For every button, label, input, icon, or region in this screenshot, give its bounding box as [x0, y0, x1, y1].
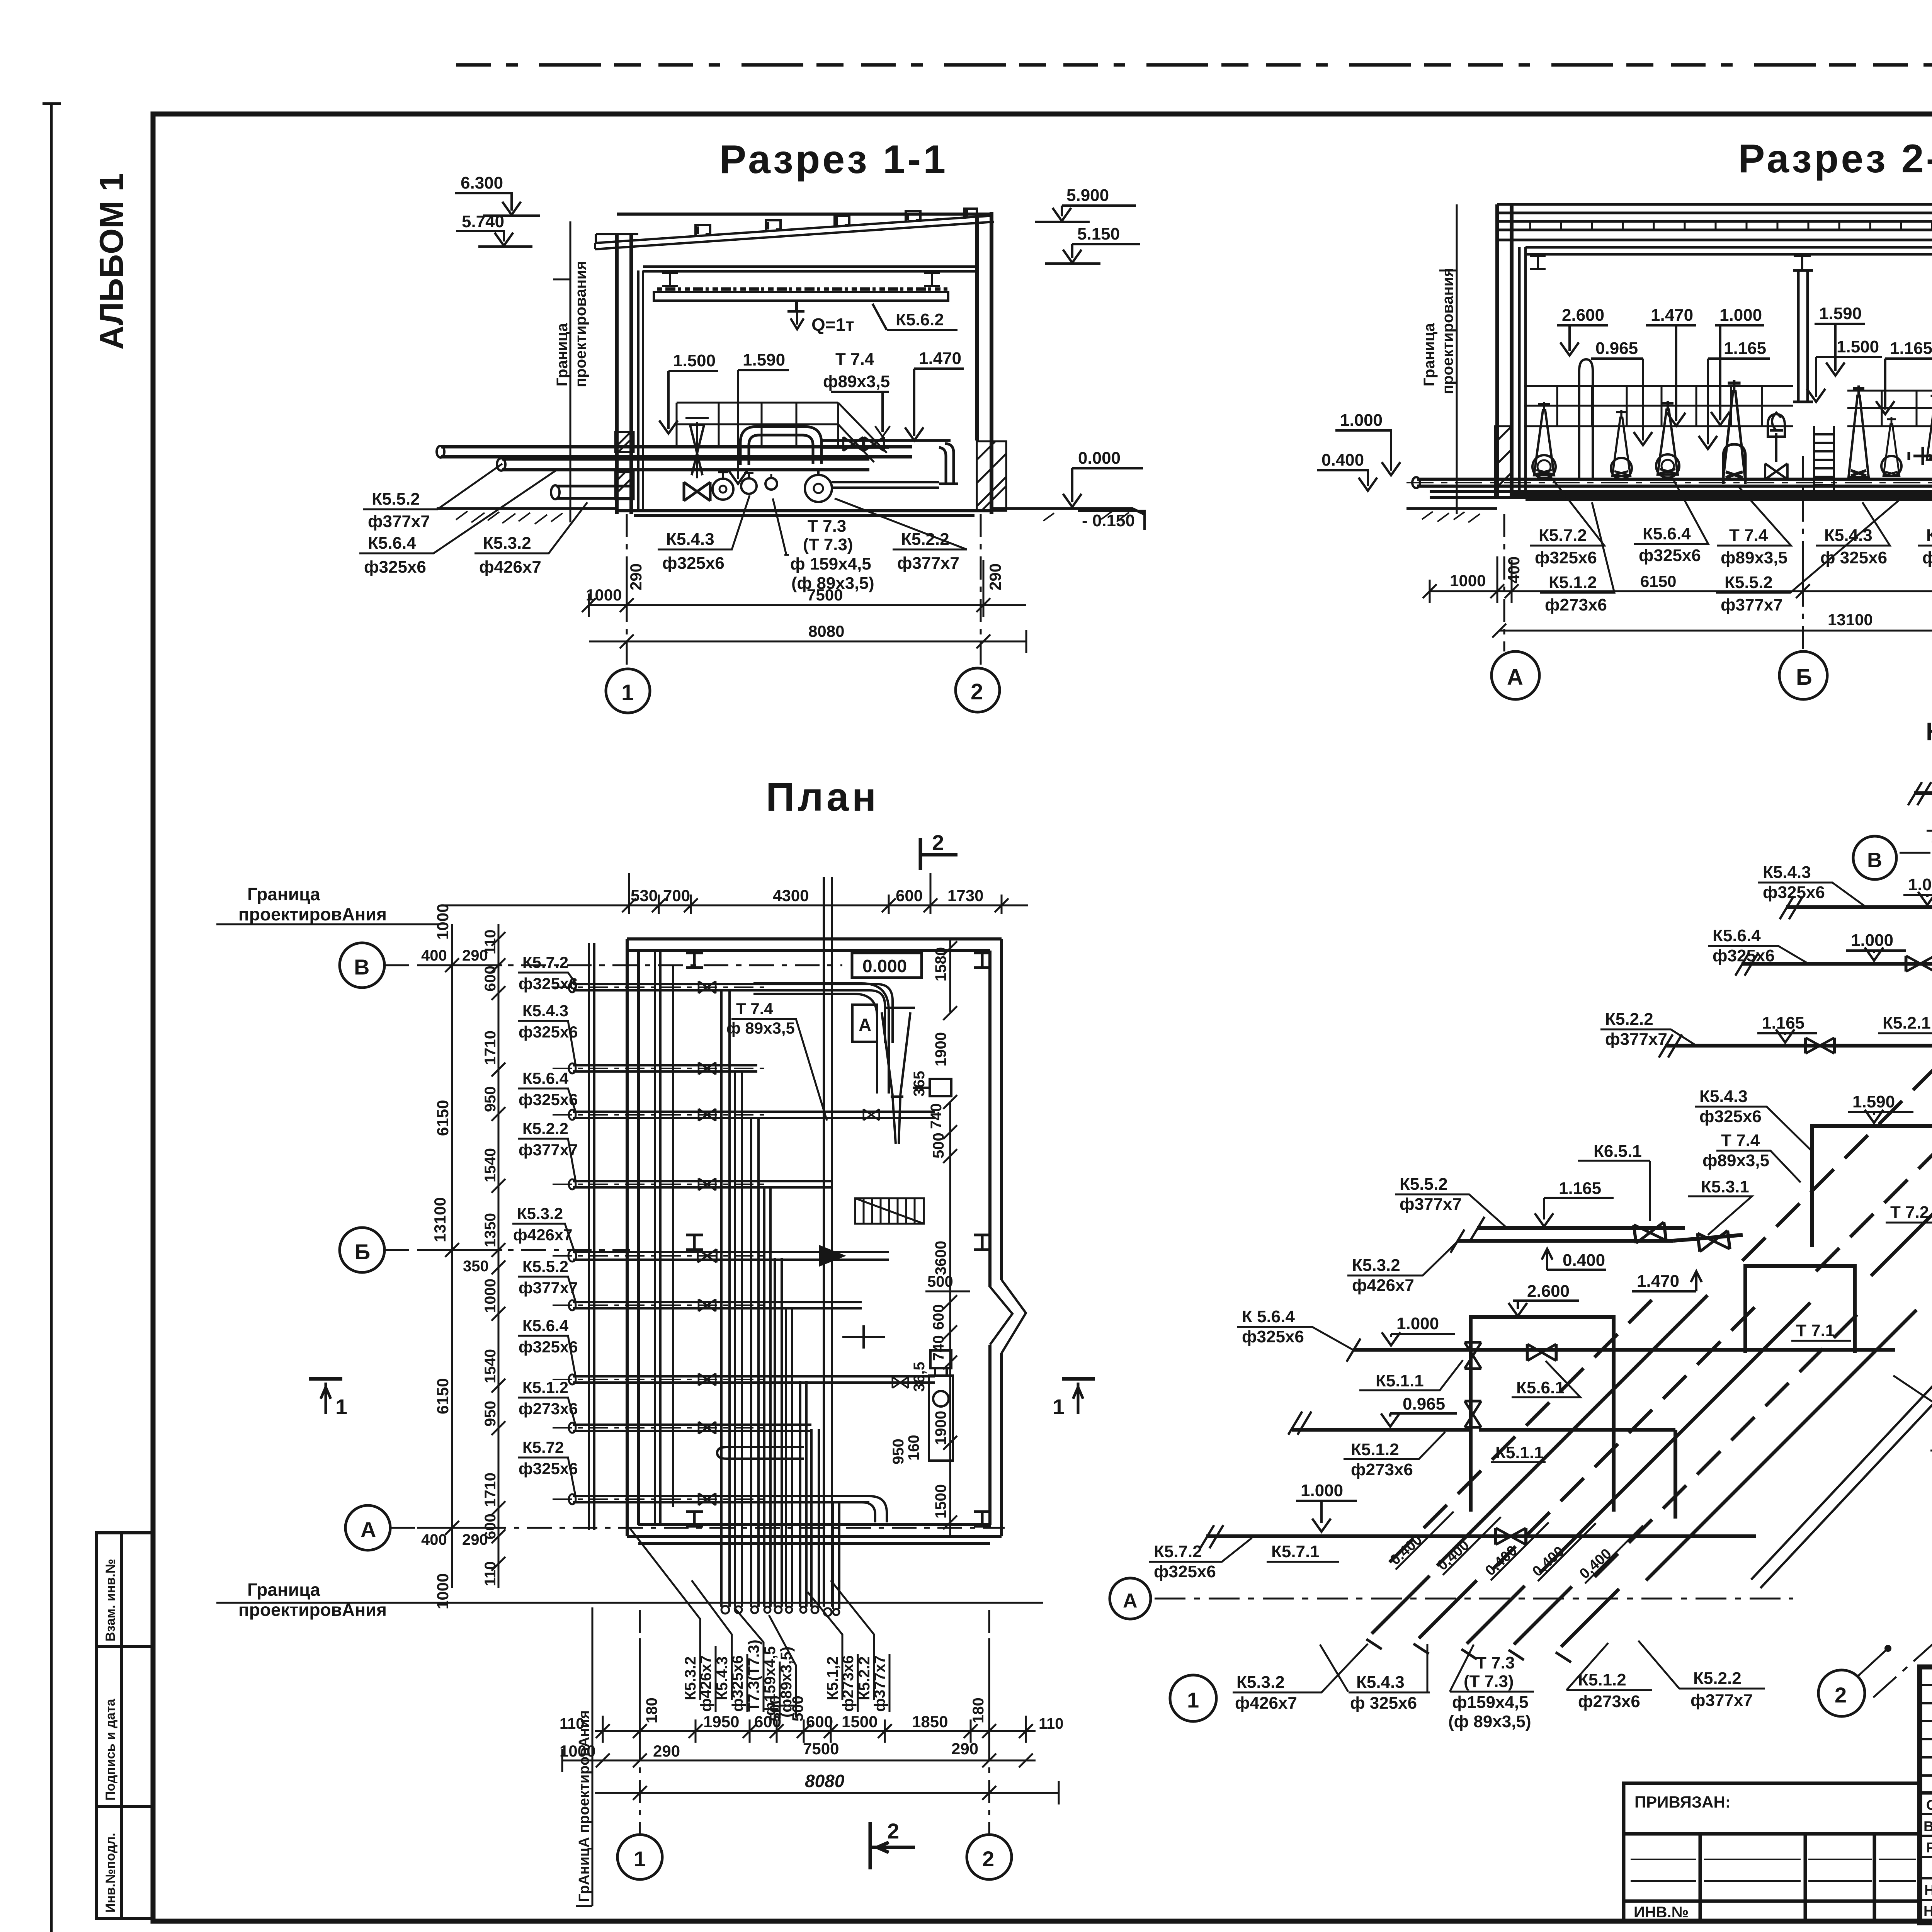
svg-text:ф325х6: ф325х6 — [519, 1090, 578, 1109]
svg-text:36,5: 36,5 — [911, 1362, 928, 1392]
vertical pipe bundle — [721, 877, 839, 1609]
svg-text:1.000: 1.000 — [1851, 931, 1893, 950]
I-beam marks — [686, 953, 991, 1526]
А box — [852, 1005, 877, 1042]
svg-text:Инв.№подл.: Инв.№подл. — [103, 1833, 118, 1913]
svg-text:2.600: 2.600 — [1562, 306, 1604, 325]
svg-text:3600: 3600 — [932, 1241, 949, 1275]
svg-text:0.000: 0.000 — [1078, 449, 1121, 468]
axon bottom labels — [1233, 1641, 1765, 1731]
svg-text:К5.4.3: К5.4.3 — [666, 530, 714, 549]
svg-text:Ст.инж.: Ст.инж. — [1926, 1797, 1932, 1813]
svg-text:ф377х7: ф377х7 — [519, 1141, 578, 1159]
label 1.470 mid — [1632, 1271, 1702, 1291]
svg-text:1850: 1850 — [912, 1713, 948, 1731]
svg-text:Т 7.2: Т 7.2 — [1890, 1203, 1929, 1222]
valve cross bottom right — [842, 1325, 885, 1349]
foot diagonals — [1372, 1576, 1619, 1647]
svg-text:К5.1.2: К5.1.2 — [1549, 573, 1597, 592]
svg-text:ф325х6: ф325х6 — [519, 1338, 578, 1356]
svg-text:ф377х7: ф377х7 — [1605, 1030, 1667, 1049]
left dim chain outer — [417, 924, 502, 1588]
svg-text:К5.4.3: К5.4.3 — [1763, 863, 1811, 882]
label Т7.2 mid — [1886, 1190, 1932, 1223]
svg-text:ф377х7: ф377х7 — [897, 554, 959, 573]
dim 1.470 — [1646, 306, 1696, 426]
injector cone 2 — [1612, 410, 1631, 476]
building outer walls — [1497, 204, 1932, 497]
wall sleeve hatched bottom — [615, 472, 634, 499]
svg-text:ф325х6: ф325х6 — [519, 1023, 578, 1041]
injector cone 7 — [1927, 394, 1932, 460]
svg-text:ф325х6: ф325х6 — [519, 1459, 578, 1478]
svg-text:2: 2 — [971, 679, 983, 704]
svg-text:1: 1 — [1187, 1688, 1199, 1712]
svg-text:К5.5.2: К5.5.2 — [1725, 573, 1773, 592]
svg-text:2: 2 — [887, 1819, 899, 1843]
dim callout Т7.4 ф89х3.5 — [823, 350, 890, 437]
pump circle 2 — [741, 478, 757, 494]
svg-text:ф89х3,5: ф89х3,5 — [1721, 548, 1787, 567]
axis circle 2 bottom — [967, 1835, 1012, 1879]
svg-text:К5.72: К5.72 — [522, 1438, 564, 1456]
svg-text:К5.1,2: К5.1,2 — [824, 1656, 841, 1700]
boundary vertical bottom — [576, 1607, 592, 1906]
riser valves rotated — [1464, 1342, 1481, 1369]
svg-text:К5.4.3: К5.4.3 — [1824, 526, 1872, 545]
svg-text:Граница: Граница — [247, 1580, 320, 1600]
wall sleeve hatched top — [615, 432, 634, 452]
svg-text:К5.6.4: К5.6.4 — [1713, 926, 1761, 945]
svg-text:1.500: 1.500 — [1837, 337, 1879, 356]
svg-text:ф377х7: ф377х7 — [1690, 1691, 1753, 1710]
svg-text:8080: 8080 — [808, 622, 844, 640]
svg-text:1350: 1350 — [482, 1213, 499, 1247]
svg-text:365: 365 — [911, 1071, 928, 1097]
label Т7.3 — [773, 498, 874, 593]
dim 1.590 — [1815, 304, 1865, 376]
svg-text:350: 350 — [463, 1258, 489, 1275]
svg-text:К 5.6.4: К 5.6.4 — [1242, 1307, 1295, 1326]
label К5.1.2 — [1540, 502, 1614, 614]
svg-text:Т 7.4: Т 7.4 — [736, 1000, 773, 1018]
injector cone 6 small — [1883, 417, 1900, 476]
scan edge top dashed line — [456, 63, 1932, 67]
svg-text:Q=1т: Q=1т — [811, 315, 854, 335]
axis circle В axon — [1853, 836, 1896, 879]
callout 0.400 left — [1317, 451, 1377, 491]
svg-text:ф325х6: ф325х6 — [519, 975, 578, 993]
svg-text:600: 600 — [806, 1713, 833, 1731]
axon pipe К5.2.2 run — [1665, 1046, 1932, 1144]
svg-text:К5.2.2: К5.2.2 — [522, 1119, 568, 1138]
svg-text:ф377х7: ф377х7 — [1400, 1195, 1462, 1214]
label К5.6.4 — [1634, 479, 1708, 565]
svg-text:ф325х6: ф325х6 — [1535, 548, 1597, 567]
equipment top right — [913, 1079, 951, 1096]
svg-text:Подпись и дата: Подпись и дата — [103, 1698, 118, 1801]
trench grid — [677, 403, 887, 462]
axis circle А plan — [345, 1505, 390, 1550]
pipe pA — [441, 447, 912, 457]
svg-text:2.600: 2.600 — [1527, 1282, 1570, 1301]
axon pipe К5.6.4 run — [1742, 962, 1932, 966]
axis lines — [384, 965, 1005, 1528]
svg-text:ф325х6: ф325х6 — [1763, 883, 1825, 902]
axis circle 1 — [606, 669, 650, 713]
pipe U loop — [740, 427, 821, 465]
svg-text:ф325х6: ф325х6 — [1713, 946, 1775, 965]
axis А line axon — [1155, 1598, 1793, 1600]
svg-text:А: А — [859, 1015, 871, 1035]
svg-text:ф377х7: ф377х7 — [1721, 595, 1783, 614]
svg-text:1.590: 1.590 — [743, 350, 785, 369]
roof band layers — [1497, 204, 1932, 240]
top right pipe riser — [753, 983, 915, 1144]
svg-text:Б: Б — [355, 1240, 370, 1264]
svg-text:1000: 1000 — [482, 1279, 499, 1313]
svg-text:1500: 1500 — [842, 1713, 878, 1731]
stairs plan — [855, 1198, 924, 1224]
axon pipe К5.3.2 run — [1457, 1235, 1743, 1241]
svg-text:1.165: 1.165 — [1559, 1179, 1601, 1198]
pump circle 4 — [805, 475, 832, 502]
svg-text:0.400: 0.400 — [1563, 1251, 1605, 1270]
svg-text:500: 500 — [767, 1696, 784, 1721]
svg-text:290: 290 — [951, 1740, 978, 1758]
boundary line Граница проектирования — [553, 221, 589, 522]
svg-text:4300: 4300 — [773, 886, 809, 905]
svg-text:Взам. инв.№: Взам. инв.№ — [103, 1559, 118, 1641]
monorail I-beam — [787, 301, 804, 311]
crane hanger right — [924, 273, 940, 286]
svg-text:1710: 1710 — [482, 1031, 499, 1065]
svg-text:ф 325х6: ф 325х6 — [1350, 1694, 1417, 1713]
svg-text:Т 7.4: Т 7.4 — [1721, 1131, 1760, 1150]
labels below: К5.7.2 — [1530, 475, 1604, 567]
svg-text:500: 500 — [789, 1696, 806, 1721]
series valves — [844, 437, 863, 451]
svg-text:600: 600 — [482, 966, 499, 992]
callout 1.000 left — [1335, 411, 1400, 475]
svg-text:ф325х6: ф325х6 — [662, 554, 724, 573]
svg-text:К5.6.4: К5.6.4 — [368, 534, 416, 553]
svg-text:К5.3.2: К5.3.2 — [682, 1656, 699, 1700]
svg-text:180: 180 — [643, 1697, 660, 1723]
svg-text:ф325х6: ф325х6 — [1699, 1107, 1762, 1126]
injector cone 3 — [1658, 401, 1678, 474]
interior columns — [1519, 247, 1932, 495]
svg-text:ф377х7: ф377х7 — [1922, 548, 1932, 567]
svg-text:К6.5.1: К6.5.1 — [1594, 1142, 1642, 1161]
svg-text:290: 290 — [986, 563, 1004, 590]
svg-text:К5.1.2: К5.1.2 — [1578, 1670, 1626, 1689]
svg-text:950: 950 — [890, 1439, 907, 1464]
svg-text:Т 7.3: Т 7.3 — [1476, 1653, 1515, 1672]
section mark 1 left — [309, 1377, 342, 1381]
svg-text:Вед.инж: Вед.инж — [1923, 1818, 1932, 1834]
svg-text:1950: 1950 — [703, 1713, 739, 1731]
axon pipe К5.6.4 lower run — [1353, 1348, 1895, 1352]
svg-text:290: 290 — [627, 563, 645, 590]
monorail hatched strip — [657, 287, 947, 291]
svg-text:1.500: 1.500 — [673, 351, 716, 370]
svg-text:К5.5.2: К5.5.2 — [522, 1257, 568, 1276]
svg-text:13100: 13100 — [1828, 611, 1873, 629]
svg-text:1000: 1000 — [586, 586, 622, 604]
axis circle Б — [1779, 651, 1827, 699]
riser box К5.4.3 — [1812, 1126, 1932, 1247]
svg-text:А: А — [1123, 1590, 1138, 1612]
axis circle 1 axon — [1170, 1675, 1216, 1721]
right dim chain rotated — [890, 947, 949, 1519]
svg-text:1.590: 1.590 — [1819, 304, 1862, 323]
svg-text:Б: Б — [1796, 665, 1812, 690]
grass hatch left — [456, 511, 563, 524]
svg-text:К5.7.2: К5.7.2 — [1539, 526, 1587, 545]
label leader lines bottom — [630, 1528, 889, 1718]
svg-text:К5.4.3: К5.4.3 — [522, 1002, 568, 1020]
svg-text:К5.3.1: К5.3.1 — [1701, 1177, 1749, 1196]
pipe pB — [502, 459, 869, 470]
svg-text:600: 600 — [896, 886, 923, 905]
dim 1.165 right — [1876, 339, 1932, 414]
svg-text:530: 530 — [631, 886, 658, 905]
svg-text:К5.2.2: К5.2.2 — [1926, 526, 1932, 545]
svg-text:К5.3.2: К5.3.2 — [1236, 1673, 1285, 1692]
svg-text:600: 600 — [482, 1514, 499, 1539]
svg-text:6150: 6150 — [1640, 572, 1676, 590]
svg-text:400: 400 — [421, 1531, 447, 1548]
svg-text:К5.5.2: К5.5.2 — [1400, 1175, 1448, 1194]
svg-text:8080: 8080 — [805, 1771, 845, 1791]
svg-text:А: А — [361, 1517, 376, 1542]
svg-text:1.590: 1.590 — [1852, 1092, 1895, 1111]
small vessel — [1768, 414, 1785, 437]
svg-text:К5.2.1: К5.2.1 — [1883, 1014, 1931, 1032]
dim callout 1.470 — [905, 349, 964, 440]
middle column I — [1793, 270, 1813, 402]
right wall pier hatched — [977, 441, 1006, 511]
svg-text:К5.2.2: К5.2.2 — [1693, 1669, 1742, 1688]
label Т7.4 plan — [726, 1000, 827, 1121]
bottom dim row 1 — [595, 1638, 1036, 1743]
roof purlins — [696, 209, 977, 236]
svg-text:950: 950 — [482, 1401, 499, 1427]
svg-text:0.000: 0.000 — [862, 956, 907, 976]
svg-text:1.470: 1.470 — [919, 349, 961, 368]
svg-text:2: 2 — [982, 1847, 994, 1871]
door notch — [990, 1280, 1026, 1353]
axis circle Б plan — [340, 1228, 384, 1272]
svg-text:6150: 6150 — [434, 1378, 452, 1414]
ceiling beam — [1526, 247, 1932, 254]
Т7.1 mid box — [1745, 1266, 1855, 1353]
svg-text:290: 290 — [653, 1742, 680, 1760]
svg-text:110: 110 — [1039, 1715, 1064, 1732]
svg-text:1.070: 1.070 — [1908, 875, 1932, 894]
wall sleeve hatched left — [1495, 426, 1512, 497]
valve at Б — [1765, 464, 1787, 480]
cross fitting — [1909, 447, 1932, 465]
svg-text:К5.1.1: К5.1.1 — [1376, 1371, 1424, 1390]
label К5.7.2 — [1927, 797, 1932, 850]
flow arrow on row5 — [819, 1245, 846, 1267]
svg-text:В: В — [1867, 849, 1882, 872]
main diagonal bundle upper — [1742, 864, 1932, 1276]
building section: left column — [617, 235, 631, 514]
dim 13100 — [1492, 619, 1932, 642]
svg-text:ф325х6: ф325х6 — [1242, 1327, 1304, 1346]
axon pipe К5.1.2 run — [1292, 1430, 1675, 1519]
injector cone 5 — [1849, 386, 1869, 478]
two long vertical pipes — [589, 943, 673, 1530]
main diagonal bundle lower — [1389, 1292, 1917, 1580]
svg-text:ф426х7: ф426х7 — [1235, 1694, 1297, 1713]
svg-text:ф426х7: ф426х7 — [513, 1226, 573, 1244]
stub valves — [699, 981, 716, 993]
floor slab — [1512, 495, 1932, 499]
hook arrow Q=1т — [791, 301, 804, 329]
dim 1.165 mid — [1699, 339, 1770, 449]
svg-text:1.000: 1.000 — [1396, 1314, 1439, 1333]
svg-text:0.965: 0.965 — [1403, 1395, 1445, 1413]
svg-text:К5.1.2: К5.1.2 — [522, 1378, 568, 1396]
svg-text:1000: 1000 — [434, 1573, 452, 1609]
building walls plan — [627, 939, 1002, 1543]
svg-text:950: 950 — [482, 1086, 499, 1112]
svg-text:ф 159х4,5: ф 159х4,5 — [790, 554, 871, 573]
elevation callout 5.150 — [1045, 224, 1140, 264]
labels below section: К5.5.2 — [363, 464, 502, 531]
svg-text:6150: 6150 — [434, 1100, 452, 1136]
roof slab sloped — [595, 216, 994, 249]
svg-text:Нач.отд.: Нач.отд. — [1923, 1903, 1932, 1919]
svg-text:ф325х6: ф325х6 — [1154, 1562, 1216, 1581]
svg-text:1500: 1500 — [932, 1484, 949, 1519]
pipe to right valves — [821, 440, 951, 447]
elevation callout -0.150 — [1078, 511, 1145, 530]
svg-text:Рук.гр.: Рук.гр. — [1926, 1840, 1932, 1855]
svg-text:К5.3.2: К5.3.2 — [1352, 1256, 1400, 1275]
svg-text:700: 700 — [663, 886, 690, 905]
label К5.6.4 — [359, 471, 556, 577]
injector cone with valve stem — [685, 418, 709, 478]
grass hatch right — [1043, 511, 1129, 522]
equipment bottom right — [929, 1350, 953, 1461]
axis circle 2 axon — [1818, 1670, 1865, 1716]
svg-text:(ф 89х3,5): (ф 89х3,5) — [1448, 1712, 1531, 1731]
svg-text:ф159х4,5: ф159х4,5 — [1452, 1693, 1529, 1712]
axis circle В plan — [340, 943, 384, 988]
svg-text:К5.2.2: К5.2.2 — [1605, 1010, 1653, 1029]
label К5.4.3 below — [1816, 502, 1890, 567]
svg-text:К5.3.2: К5.3.2 — [483, 534, 531, 553]
svg-text:Т 7.3: Т 7.3 — [808, 517, 846, 536]
left dim chain inner — [492, 924, 505, 1588]
svg-text:5.150: 5.150 — [1077, 224, 1120, 243]
top dim line — [444, 873, 1028, 914]
pipe stubs left — [573, 984, 759, 1502]
svg-text:1900: 1900 — [932, 1411, 949, 1445]
plan cut mark 2 bottom — [870, 1822, 915, 1869]
svg-text:1710: 1710 — [482, 1473, 499, 1507]
svg-text:К5.6.2: К5.6.2 — [896, 310, 944, 329]
axon pipe К5.5.2 run — [1477, 1226, 1685, 1230]
К5.6.3 twin diagonal — [1751, 802, 1932, 1588]
svg-text:110: 110 — [482, 1561, 499, 1586]
svg-text:ф273х6: ф273х6 — [1578, 1692, 1640, 1711]
svg-text:1: 1 — [621, 680, 634, 705]
axon pipe К5.4.3 run — [1786, 907, 1932, 978]
pipe bundle main — [1417, 479, 1932, 498]
pump circle at 6 — [1881, 456, 1901, 476]
axis line 2 — [980, 514, 982, 668]
svg-text:160: 160 — [905, 1435, 922, 1461]
svg-text:ф273х6: ф273х6 — [1545, 595, 1607, 614]
svg-text:В: В — [354, 955, 369, 979]
svg-text:ф89х3,5: ф89х3,5 — [823, 372, 890, 391]
elevation callout 6.300 — [455, 173, 540, 216]
svg-text:1.000: 1.000 — [1301, 1481, 1343, 1500]
svg-text:1.165: 1.165 — [1724, 339, 1766, 358]
top chord — [617, 214, 992, 270]
label К5.6.2 flag — [872, 304, 957, 330]
svg-text:1.165: 1.165 — [1762, 1014, 1804, 1032]
svg-text:180: 180 — [970, 1697, 987, 1723]
injector cone 4 tall — [1723, 380, 1745, 480]
dim callout 1.500 — [659, 351, 718, 434]
svg-text:ф273х6: ф273х6 — [1351, 1460, 1413, 1479]
0.000 box — [852, 953, 922, 978]
svg-text:6.300: 6.300 — [461, 173, 503, 192]
svg-text:План: План — [766, 775, 879, 820]
svg-text:400: 400 — [1505, 556, 1523, 583]
svg-text:К5.6.4: К5.6.4 — [522, 1316, 569, 1335]
svg-text:К5.4.3: К5.4.3 — [1699, 1087, 1748, 1106]
pump circle 3 — [765, 478, 777, 490]
svg-text:К5.7.2: К5.7.2 — [1154, 1542, 1202, 1561]
ground line left — [437, 507, 618, 510]
bottom dim row 2 — [562, 1749, 1036, 1772]
axon pipe К5.7.2 top run — [1914, 791, 1932, 795]
svg-text:проектирования: проектирования — [1439, 268, 1456, 394]
svg-text:(Т 7.3): (Т 7.3) — [803, 535, 853, 554]
svg-text:К5.1.2: К5.1.2 — [1351, 1440, 1399, 1459]
svg-text:К5.3.2: К5.3.2 — [517, 1204, 563, 1223]
ground line right — [992, 509, 1144, 514]
riser П 2.600 — [1471, 1317, 1614, 1512]
trench grid right — [1847, 391, 1932, 426]
svg-text:ПРИВЯЗАН:: ПРИВЯЗАН: — [1634, 1793, 1731, 1811]
svg-text:400: 400 — [421, 947, 447, 964]
svg-text:5.740: 5.740 — [462, 212, 504, 231]
label К5.2.2 — [835, 498, 967, 573]
right dim tick line — [943, 939, 957, 1536]
dim row 1000/290/7500/290 — [582, 560, 1026, 617]
axis circle 1 bottom — [617, 1835, 662, 1879]
axis circle 2 — [956, 668, 1000, 712]
axis circle А axon — [1110, 1578, 1151, 1619]
svg-text:К5.7.2: К5.7.2 — [522, 953, 568, 971]
crane hanger left — [662, 273, 678, 286]
svg-text:ГрАницА проектировАния: ГрАницА проектировАния — [576, 1710, 592, 1902]
bottom-left inventory table — [97, 1533, 153, 1918]
dim row 8080 — [589, 630, 1026, 653]
svg-text:К5.6.4: К5.6.4 — [522, 1069, 569, 1087]
trench grid left — [1524, 386, 1793, 426]
svg-text:ф325х6: ф325х6 — [364, 558, 426, 577]
